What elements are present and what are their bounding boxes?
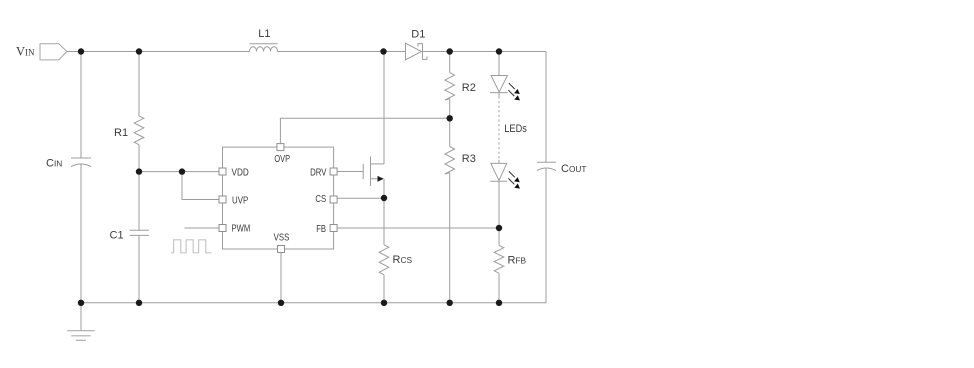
- input connector VIN: [40, 44, 67, 60]
- node VDD junction: [136, 168, 142, 174]
- LED D2: [490, 76, 508, 93]
- transistor Q1 (NMOS): [363, 157, 384, 187]
- resistor RCS: [379, 245, 389, 275]
- node CS junction: [381, 195, 387, 201]
- wire bottom rail: [81, 302, 546, 304]
- node OVP junction: [447, 115, 453, 121]
- svg-text:FB: FB: [316, 224, 326, 235]
- inductor L1: [250, 44, 278, 52]
- LED D3: [490, 163, 507, 181]
- svg-text:R1: R1: [114, 127, 128, 139]
- wire CIN branch vertical: [80, 52, 82, 303]
- svg-text:R2: R2: [462, 82, 476, 94]
- resistor RFB: [494, 245, 504, 273]
- pin UVP: [219, 196, 226, 203]
- node gnd1 junction: [78, 300, 84, 306]
- wire COUT to bottom rail: [545, 168, 547, 303]
- svg-text:RFB: RFB: [508, 255, 527, 267]
- wire R2 to OVP node: [449, 99, 451, 147]
- node drain junction: [380, 48, 386, 54]
- wire node C to R2: [449, 52, 451, 73]
- svg-text:DRV: DRV: [310, 167, 327, 178]
- pwm waveform: [171, 240, 212, 253]
- svg-text:L1: L1: [258, 28, 270, 40]
- pin FB: [330, 225, 337, 232]
- node gnd4 junction: [381, 300, 387, 306]
- node B junction: [136, 48, 142, 54]
- svg-text:C1: C1: [110, 229, 124, 241]
- wire C1 to bottom rail: [138, 235, 140, 302]
- wire VSS to bottom rail: [280, 253, 282, 303]
- wire top rail A to B: [81, 51, 139, 53]
- wire LED string to FB node: [498, 181, 500, 228]
- svg-text:VSS: VSS: [274, 232, 290, 243]
- diode D1 (schottky): [406, 43, 428, 60]
- svg-text:D1: D1: [411, 29, 425, 41]
- pin CS: [330, 196, 337, 203]
- wire node C to node D: [450, 51, 499, 53]
- capacitor C1: [130, 230, 149, 235]
- pin VSS: [278, 246, 285, 253]
- pin OVP: [277, 144, 284, 151]
- wire CS net: [337, 197, 384, 199]
- wire node D to LED1: [498, 52, 500, 76]
- svg-text:CS: CS: [315, 194, 326, 205]
- wire VDD net: [139, 171, 219, 173]
- svg-text:CIN: CIN: [46, 158, 62, 170]
- wire drain vertical: [383, 52, 385, 164]
- wire CS node to RCS: [383, 198, 385, 245]
- wire source to CS node: [383, 179, 385, 198]
- wire DRV to gate: [337, 171, 363, 173]
- node D junction: [496, 48, 502, 54]
- resistor R1: [134, 116, 144, 145]
- pin PWM: [219, 225, 226, 232]
- node A junction: [78, 48, 84, 54]
- resistor R2: [445, 73, 455, 101]
- svg-text:UVP: UVP: [232, 195, 248, 206]
- node gnd5 junction: [447, 300, 453, 306]
- wire OVP net: [280, 118, 449, 143]
- wire VIN to node A: [67, 51, 81, 53]
- wire COUT branch top: [545, 52, 547, 163]
- wire L1 to drain node: [278, 51, 384, 53]
- node FB junction: [496, 225, 502, 231]
- node C junction: [447, 48, 453, 54]
- wire node D to COUT branch: [499, 51, 546, 53]
- wire R1 branch top: [138, 52, 140, 116]
- wire UVP branch: [182, 172, 219, 200]
- wire FB net: [337, 227, 499, 229]
- pin DRV: [330, 168, 337, 175]
- capacitor CIN: [71, 158, 91, 167]
- svg-text:RCS: RCS: [393, 254, 413, 266]
- node UVP junction: [179, 168, 185, 174]
- wire dashed LED string: [498, 93, 500, 97]
- wire top rail B to L1: [139, 51, 250, 53]
- wire RCS to bottom rail: [383, 275, 385, 303]
- svg-text:R3: R3: [462, 153, 476, 165]
- wire D1 to node C: [423, 51, 450, 53]
- wire PWM stub: [185, 227, 219, 229]
- svg-text:COUT: COUT: [561, 163, 586, 175]
- capacitor COUT: [537, 162, 556, 170]
- wire RFB to bottom rail: [498, 273, 500, 303]
- wire R1 to VDD node: [138, 145, 140, 172]
- LED D2 arrows: [508, 83, 520, 100]
- wire drain node to D1: [384, 51, 406, 53]
- Q1 source arrow: [378, 176, 384, 182]
- node gnd6 junction: [496, 300, 502, 306]
- node gnd2 junction: [136, 300, 142, 306]
- node gnd3 junction: [278, 300, 284, 306]
- svg-text:OVP: OVP: [274, 154, 290, 165]
- wire FB node to RFB: [498, 228, 500, 245]
- svg-text:LEDs: LEDs: [504, 123, 527, 135]
- ground: [67, 303, 94, 341]
- wire R3 to bottom rail: [449, 173, 451, 303]
- wire VDD node down to C1: [138, 172, 140, 231]
- svg-text:VIN: VIN: [16, 45, 35, 59]
- pin VDD: [219, 168, 226, 175]
- svg-text:VDD: VDD: [232, 167, 249, 178]
- LED D3 arrows: [508, 171, 520, 188]
- svg-text:PWM: PWM: [232, 224, 251, 235]
- op-amp U1 body: [223, 147, 334, 249]
- resistor R3: [445, 147, 455, 175]
